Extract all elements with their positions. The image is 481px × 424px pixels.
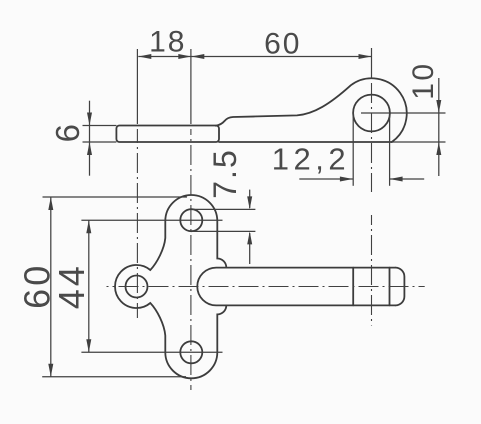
svg-text:44: 44 <box>51 263 92 309</box>
svg-text:6: 6 <box>49 124 86 142</box>
svg-text:7.5: 7.5 <box>207 148 243 198</box>
svg-text:10: 10 <box>407 61 440 99</box>
svg-text:60: 60 <box>264 28 301 61</box>
svg-text:18: 18 <box>149 26 186 59</box>
svg-text:12,2: 12,2 <box>272 142 350 177</box>
